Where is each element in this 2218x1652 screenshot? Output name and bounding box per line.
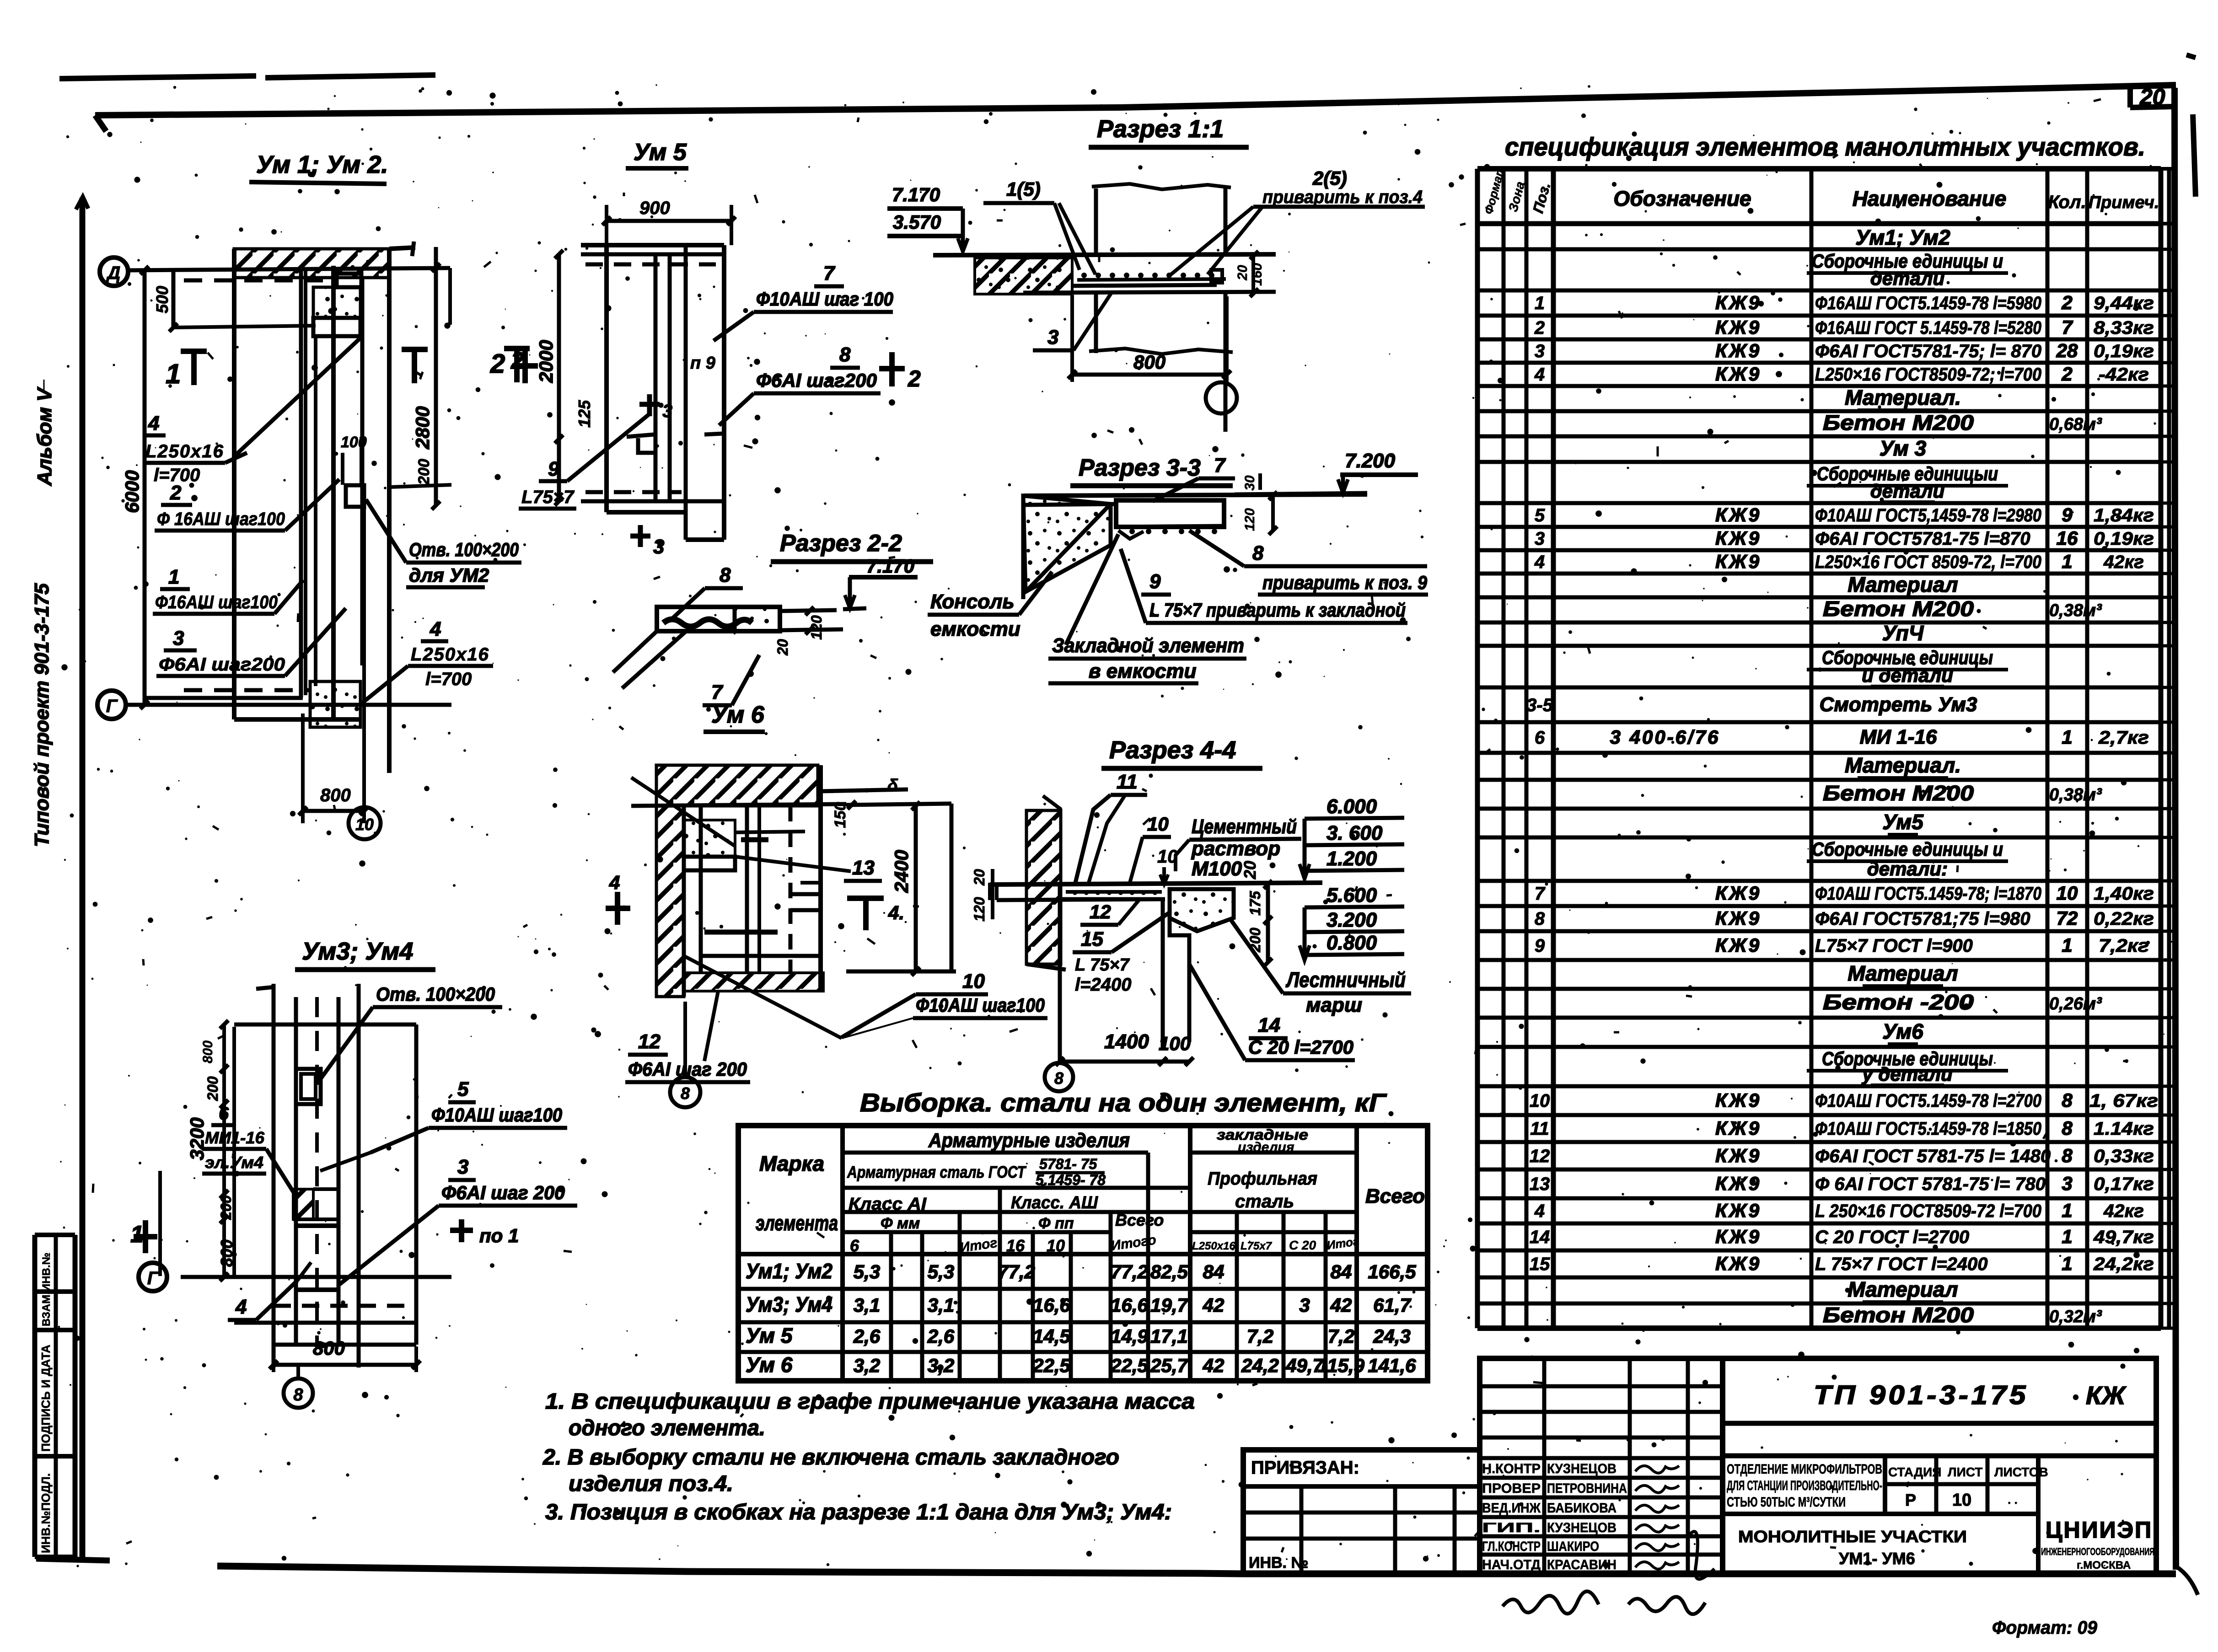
svg-text:7: 7	[2062, 316, 2073, 338]
svg-text:4: 4	[609, 872, 620, 893]
svg-text:77,2: 77,2	[1111, 1261, 1148, 1282]
svg-text:42кг: 42кг	[2103, 552, 2144, 572]
svg-text:ДЛЯ СТАНЦИИ ПРОИЗВОДИТЕЛЬНО-: ДЛЯ СТАНЦИИ ПРОИЗВОДИТЕЛЬНО-	[1727, 1478, 1882, 1493]
svg-text:3. 600: 3. 600	[1327, 822, 1383, 844]
svg-text:Ф16АШ шаг100: Ф16АШ шаг100	[155, 592, 278, 612]
svg-text:КЖ9: КЖ9	[1715, 907, 1761, 929]
svg-text:15: 15	[1081, 928, 1103, 950]
svg-text:4: 4	[1534, 1201, 1545, 1221]
svg-text:Наименование: Наименование	[1853, 187, 2007, 210]
svg-text:16: 16	[1006, 1236, 1025, 1255]
svg-text:7: 7	[1535, 884, 1546, 904]
svg-text:Цементный: Цементный	[1192, 815, 1297, 838]
svg-text:L 75×7 приварить к закладной: L 75×7 приварить к закладной	[1149, 599, 1406, 621]
svg-text:7,2кг: 7,2кг	[2099, 936, 2149, 956]
svg-text:Ф6АI ГОСТ5781;75 l=980: Ф6АI ГОСТ5781;75 l=980	[1815, 909, 2030, 929]
svg-text:Разрез 4-4: Разрез 4-4	[1109, 736, 1236, 764]
svg-text:марш: марш	[1306, 994, 1362, 1016]
svg-text:Ум1; Ум2: Ум1; Ум2	[746, 1259, 832, 1283]
svg-text:7.200: 7.200	[1345, 450, 1396, 472]
svg-text:120: 120	[1242, 508, 1257, 531]
svg-text:0.800: 0.800	[1327, 932, 1377, 954]
svg-text:Ф мм: Ф мм	[881, 1215, 920, 1232]
svg-text:КЖ9: КЖ9	[1715, 882, 1761, 904]
svg-text:Ум 5: Ум 5	[634, 139, 687, 166]
svg-text:Г: Г	[106, 696, 118, 716]
svg-text:1: 1	[2062, 726, 2072, 748]
svg-text:8: 8	[681, 1084, 690, 1103]
svg-text:6: 6	[1535, 728, 1545, 748]
svg-text:Всего: Всего	[1365, 1185, 1425, 1207]
svg-text:Ф10АШ ГОСТ5.1459-78; l=1870: Ф10АШ ГОСТ5.1459-78; l=1870	[1815, 884, 2041, 904]
svg-text:14: 14	[1530, 1227, 1550, 1247]
svg-text:спецификация элементов манолит: спецификация элементов манолитных участк…	[1505, 132, 2145, 161]
svg-text:КЖ9: КЖ9	[1715, 316, 1761, 338]
svg-text:Н.КОНТР: Н.КОНТР	[1482, 1461, 1541, 1476]
svg-text:КЖ9: КЖ9	[1715, 527, 1761, 549]
svg-text:42: 42	[1330, 1294, 1352, 1316]
svg-text:КЖ9: КЖ9	[1715, 340, 1761, 361]
svg-text:КЖ9: КЖ9	[1715, 1145, 1761, 1166]
svg-text:Отв. 100×200: Отв. 100×200	[409, 539, 519, 560]
svg-text:42: 42	[1203, 1355, 1224, 1376]
svg-text:Ф10АШ шаг100: Ф10АШ шаг100	[916, 994, 1045, 1016]
svg-text:7.170: 7.170	[892, 184, 940, 205]
svg-text:Р: Р	[1905, 1491, 1916, 1509]
svg-text:Типовой проект 901-3-175: Типовой проект 901-3-175	[31, 583, 53, 847]
svg-text:Ф16АШ ГОСТ5.1459-78 l=5980: Ф16АШ ГОСТ5.1459-78 l=5980	[1815, 293, 2041, 313]
svg-text:3: 3	[1535, 341, 1545, 361]
svg-text:МИ 1-16: МИ 1-16	[1860, 726, 1937, 748]
svg-text:0,38м³: 0,38м³	[2049, 601, 2102, 620]
svg-text:L 75×7: L 75×7	[1075, 955, 1130, 975]
svg-text:емкости: емкости	[930, 618, 1020, 640]
svg-text:1,84кг: 1,84кг	[2094, 505, 2154, 526]
svg-text:КЖ9: КЖ9	[1715, 1253, 1761, 1274]
svg-text:14,9: 14,9	[1111, 1325, 1148, 1347]
svg-text:11: 11	[1117, 771, 1138, 793]
svg-text:НАЧ.ОТД: НАЧ.ОТД	[1482, 1557, 1541, 1572]
svg-text:Ф16АШ ГОСТ 5.1459-78 l=5280: Ф16АШ ГОСТ 5.1459-78 l=5280	[1815, 318, 2041, 338]
svg-text:30: 30	[1242, 475, 1257, 491]
svg-text:приварить к поз. 9: приварить к поз. 9	[1262, 572, 1428, 593]
svg-text:4.: 4.	[888, 902, 904, 923]
svg-text:ЛИСТОВ: ЛИСТОВ	[1994, 1465, 2048, 1479]
svg-text:2,6: 2,6	[927, 1325, 955, 1347]
svg-text:в емкости: в емкости	[1089, 660, 1197, 682]
svg-text:141,6: 141,6	[1368, 1355, 1416, 1376]
svg-text:8: 8	[2062, 1089, 2073, 1111]
svg-text:Ф10АШ ГОСТ5.1459-78 l=2700: Ф10АШ ГОСТ5.1459-78 l=2700	[1815, 1091, 2041, 1111]
svg-text:одного элемента.: одного элемента.	[569, 1416, 765, 1440]
svg-text:3200: 3200	[186, 1117, 208, 1160]
svg-text:ПОДПИСЬ И ДАТА: ПОДПИСЬ И ДАТА	[39, 1345, 53, 1452]
svg-text:Обозначение: Обозначение	[1613, 187, 1751, 210]
svg-text:Ум6: Ум6	[1882, 1019, 1923, 1043]
svg-text:2: 2	[908, 366, 921, 392]
svg-text:0,17кг: 0,17кг	[2094, 1174, 2154, 1194]
svg-text:12: 12	[638, 1030, 661, 1053]
svg-text:2: 2	[510, 348, 524, 374]
svg-text:Бетон -200: Бетон -200	[1823, 990, 1974, 1014]
svg-text:42: 42	[1203, 1294, 1224, 1316]
svg-text:6.000: 6.000	[1327, 795, 1377, 818]
svg-text:ВЗАМ.ИНВ.№: ВЗАМ.ИНВ.№	[40, 1253, 53, 1326]
svg-text:С 20 ГОСТ l=2700: С 20 ГОСТ l=2700	[1815, 1227, 1969, 1247]
svg-text:1: 1	[166, 359, 181, 389]
svg-text:6: 6	[850, 1236, 859, 1255]
svg-text:ИНЖЕНЕРНОГООБОРУДОВАНИЯ: ИНЖЕНЕРНОГООБОРУДОВАНИЯ	[2041, 1546, 2154, 1557]
svg-text:1: 1	[168, 566, 179, 588]
svg-text:БАБИКОВА: БАБИКОВА	[1547, 1501, 1617, 1516]
svg-text:ЦНИИЭП: ЦНИИЭП	[2046, 1517, 2153, 1543]
svg-text:7: 7	[823, 262, 836, 284]
svg-text:0,33кг: 0,33кг	[2094, 1146, 2154, 1166]
svg-text:4: 4	[1534, 365, 1545, 385]
svg-text:УМ1- УМ6: УМ1- УМ6	[1839, 1549, 1915, 1568]
svg-text:Ф пп: Ф пп	[1038, 1215, 1074, 1232]
svg-text:Бетон М200: Бетон М200	[1823, 597, 1974, 621]
svg-text:Ум3; Ум4: Ум3; Ум4	[302, 938, 413, 965]
svg-text:3: 3	[1299, 1294, 1310, 1316]
svg-text:61,7: 61,7	[1373, 1294, 1411, 1316]
svg-text:Кол.: Кол.	[2048, 192, 2086, 212]
svg-text:120: 120	[971, 897, 988, 922]
svg-text:4: 4	[235, 1296, 247, 1318]
svg-text:Ф6АI шаг200: Ф6АI шаг200	[756, 370, 877, 391]
svg-text:9: 9	[548, 458, 559, 480]
svg-text:ПРОВЕР: ПРОВЕР	[1482, 1481, 1541, 1496]
svg-text:3: 3	[653, 536, 664, 558]
svg-text:7,2: 7,2	[1247, 1325, 1273, 1347]
svg-text:9: 9	[2062, 504, 2073, 526]
svg-text:5,3: 5,3	[928, 1261, 954, 1282]
svg-text:3: 3	[457, 1156, 468, 1178]
svg-text:Ум 6: Ум 6	[711, 702, 765, 728]
svg-text:3. Позиция в скобках на разрез: 3. Позиция в скобках на разрезе 1:1 дана…	[545, 1500, 1172, 1524]
svg-text:10: 10	[1530, 1091, 1550, 1111]
svg-text:16,6: 16,6	[1111, 1294, 1148, 1316]
svg-text:3: 3	[662, 401, 672, 421]
svg-text:22,5: 22,5	[1032, 1355, 1070, 1376]
svg-text:5781- 75: 5781- 75	[1039, 1156, 1098, 1172]
svg-text:ОТДЕЛЕНИЕ МИКРОФИЛЬТРОВ: ОТДЕЛЕНИЕ МИКРОФИЛЬТРОВ	[1727, 1462, 1882, 1477]
svg-text:. .: . .	[2008, 1493, 2018, 1507]
svg-text:Формат: 09: Формат: 09	[1992, 1618, 2098, 1638]
svg-text:800: 800	[320, 785, 351, 805]
svg-text:КЖ9: КЖ9	[1715, 1226, 1761, 1247]
svg-text:3-5: 3-5	[1526, 695, 1553, 715]
svg-text:9,44кг: 9,44кг	[2094, 293, 2154, 313]
svg-text:166,5: 166,5	[1368, 1261, 1416, 1282]
svg-text:КЖ9: КЖ9	[1715, 292, 1761, 313]
svg-text:200: 200	[204, 1076, 221, 1101]
svg-text:Альбом V: Альбом V	[33, 386, 56, 486]
svg-text:2400: 2400	[891, 850, 912, 893]
svg-text:Разрез 3-3: Разрез 3-3	[1079, 455, 1201, 481]
svg-text:Класс АI: Класс АI	[849, 1195, 927, 1214]
svg-text:4: 4	[1534, 552, 1545, 572]
svg-text:0,22кг: 0,22кг	[2094, 909, 2154, 929]
svg-text:Материал: Материал	[1847, 961, 1958, 985]
svg-text:Лестничный: Лестничный	[1285, 968, 1406, 992]
svg-text:1: 1	[2062, 1200, 2072, 1221]
svg-text:Марка: Марка	[759, 1152, 824, 1175]
svg-text:20: 20	[774, 639, 791, 656]
svg-text:Ум 3: Ум 3	[1880, 436, 1927, 460]
svg-text:6000: 6000	[121, 470, 143, 513]
svg-text:КЖ9: КЖ9	[1715, 1200, 1761, 1221]
svg-text:1: 1	[2062, 1226, 2072, 1247]
svg-text:Арматурная сталь ГОСТ: Арматурная сталь ГОСТ	[847, 1163, 1026, 1181]
svg-text:115,9: 115,9	[1318, 1355, 1365, 1376]
svg-text:l=700: l=700	[425, 669, 472, 689]
svg-text:Ф10АШ шаг100: Ф10АШ шаг100	[431, 1104, 562, 1126]
svg-text:Материал.: Материал.	[1845, 386, 1961, 409]
svg-text:14,5: 14,5	[1033, 1325, 1070, 1347]
svg-text:детали: детали	[1870, 268, 1944, 289]
svg-text:3: 3	[173, 627, 184, 649]
svg-text:19,7: 19,7	[1150, 1294, 1188, 1316]
svg-text:ИНВ.№ПОДЛ.: ИНВ.№ПОДЛ.	[39, 1473, 53, 1553]
svg-text:раствор: раствор	[1191, 837, 1280, 860]
svg-text:10: 10	[355, 815, 374, 834]
svg-text:0,19кг: 0,19кг	[2094, 341, 2154, 361]
svg-text:7,2: 7,2	[1328, 1325, 1354, 1347]
svg-text:КЖ9: КЖ9	[1715, 363, 1761, 385]
svg-text:200: 200	[218, 1195, 234, 1220]
svg-text:16: 16	[2057, 527, 2078, 549]
svg-text:1. В спецификации в графе прим: 1. В спецификации в графе примечание ука…	[545, 1389, 1195, 1414]
svg-text:L75×7: L75×7	[521, 487, 575, 507]
svg-text:42кг: 42кг	[2103, 1201, 2144, 1221]
svg-text:4: 4	[148, 412, 159, 434]
svg-text:49,7кг: 49,7кг	[2093, 1227, 2154, 1247]
svg-text:КЖ9: КЖ9	[1715, 1089, 1761, 1111]
svg-text:16,6: 16,6	[1033, 1294, 1070, 1316]
svg-text:L250×16 ГОСТ8509-72; l=700: L250×16 ГОСТ8509-72; l=700	[1815, 365, 2041, 385]
svg-text:3,2: 3,2	[854, 1355, 880, 1376]
svg-text:Ф6АI ГОСТ5781-75; l= 870: Ф6АI ГОСТ5781-75; l= 870	[1815, 341, 2041, 361]
svg-text:L250x16: L250x16	[1192, 1240, 1235, 1252]
svg-text:Ум1; Ум2: Ум1; Ум2	[1855, 225, 1950, 249]
svg-text:0,32м³: 0,32м³	[2049, 1307, 2102, 1326]
svg-text:3: 3	[1047, 326, 1058, 349]
svg-text:3,1: 3,1	[854, 1294, 880, 1316]
svg-text:800: 800	[200, 1041, 215, 1063]
svg-text:20: 20	[1241, 861, 1259, 880]
svg-text:Разрез 1:1: Разрез 1:1	[1097, 115, 1224, 143]
svg-text:Ф10АШ ГОСТ5.1459-78 l=1850: Ф10АШ ГОСТ5.1459-78 l=1850	[1815, 1119, 2041, 1139]
svg-text:1: 1	[2062, 934, 2072, 956]
svg-text:и детали: и детали	[1862, 665, 1953, 686]
svg-text:изделия: изделия	[1238, 1140, 1294, 1155]
svg-text:Ф 6АI ГОСТ 5781-75 l= 780: Ф 6АI ГОСТ 5781-75 l= 780	[1815, 1174, 2046, 1194]
svg-text:детали:: детали:	[1867, 858, 1948, 880]
svg-text:ТП 901-3-175: ТП 901-3-175	[1814, 1380, 2029, 1410]
svg-text:ИНВ. №: ИНВ. №	[1249, 1554, 1308, 1572]
svg-text:Сборочные единицы и: Сборочные единицы и	[1812, 838, 2003, 860]
svg-text:14: 14	[1258, 1014, 1280, 1036]
svg-text:ГИП.: ГИП.	[1482, 1520, 1541, 1535]
svg-text:5: 5	[1535, 505, 1545, 526]
svg-text:7: 7	[711, 681, 724, 703]
svg-text:Отв. 100×200: Отв. 100×200	[376, 983, 495, 1005]
svg-text:0,38м³: 0,38м³	[2049, 785, 2102, 805]
svg-text:СТЬЮ 50ТЫС М³/СУТКИ: СТЬЮ 50ТЫС М³/СУТКИ	[1727, 1495, 1846, 1510]
svg-text:КЖ9: КЖ9	[1715, 504, 1761, 526]
svg-text:УпЧ: УпЧ	[1882, 621, 1924, 645]
svg-text:200: 200	[415, 459, 433, 485]
svg-text:24,3: 24,3	[1373, 1325, 1411, 1347]
svg-text:5.600: 5.600	[1327, 884, 1377, 906]
svg-text:15: 15	[1530, 1254, 1550, 1274]
svg-text:8: 8	[1054, 1069, 1063, 1088]
svg-text:2(5): 2(5)	[1312, 167, 1347, 189]
svg-text:δ: δ	[887, 776, 898, 795]
svg-text:КЖ: КЖ	[2086, 1381, 2127, 1410]
svg-text:8: 8	[2062, 1145, 2073, 1166]
svg-text:ПЕТРОВНИНА: ПЕТРОВНИНА	[1547, 1481, 1627, 1496]
svg-text:СТАДИЯ: СТАДИЯ	[1888, 1465, 1941, 1479]
svg-text:L75×7 ГОСТ l=900: L75×7 ГОСТ l=900	[1815, 936, 1973, 956]
svg-text:2800: 2800	[412, 406, 433, 449]
svg-text:10: 10	[962, 970, 985, 992]
svg-text:13: 13	[1530, 1174, 1550, 1194]
svg-text:Бетон М200: Бетон М200	[1823, 1303, 1974, 1327]
svg-text:г.МОСКВА: г.МОСКВА	[2077, 1559, 2131, 1572]
svg-text:2: 2	[2061, 292, 2072, 313]
svg-text:9: 9	[1535, 936, 1545, 956]
svg-text:Примеч.: Примеч.	[2089, 193, 2159, 212]
svg-text:1400: 1400	[1104, 1030, 1149, 1053]
svg-text:L 250×16 ГОСТ8509-72 l=700: L 250×16 ГОСТ8509-72 l=700	[1815, 1201, 2041, 1221]
svg-text:Ф6АI шаг200: Ф6АI шаг200	[159, 654, 285, 675]
svg-text:7: 7	[1214, 454, 1226, 477]
svg-text:5: 5	[457, 1078, 469, 1100]
svg-text:Бетон М200: Бетон М200	[1823, 411, 1974, 434]
svg-text:8: 8	[2062, 1117, 2073, 1139]
svg-text:72: 72	[2057, 907, 2078, 929]
svg-text:84: 84	[1203, 1261, 1224, 1282]
svg-text:у детали: у детали	[1861, 1063, 1952, 1085]
svg-text:17,1: 17,1	[1150, 1325, 1188, 1347]
svg-text:ВЕД.ИНЖ: ВЕД.ИНЖ	[1482, 1501, 1541, 1516]
svg-text:2: 2	[1534, 318, 1545, 338]
svg-text:Ф6АI ГОСТ5781-75 l=870: Ф6АI ГОСТ5781-75 l=870	[1815, 529, 2030, 549]
svg-text:10: 10	[1147, 813, 1169, 835]
svg-text:3,1: 3,1	[928, 1294, 954, 1316]
svg-text:ЛИСТ: ЛИСТ	[1948, 1465, 1982, 1479]
svg-text:Смотреть Ум3: Смотреть Ум3	[1820, 693, 1977, 716]
svg-text:элемента: элемента	[756, 1211, 838, 1235]
svg-text:10: 10	[2057, 882, 2078, 904]
svg-text:100: 100	[1159, 1033, 1191, 1054]
svg-text:12: 12	[1530, 1146, 1550, 1166]
svg-text:24,2: 24,2	[1241, 1355, 1279, 1376]
svg-text:2: 2	[2061, 363, 2072, 385]
svg-text:8: 8	[1252, 542, 1264, 564]
svg-text:КУЗНЕЦОВ: КУЗНЕЦОВ	[1547, 1461, 1617, 1476]
svg-text:Г: Г	[147, 1268, 160, 1288]
svg-text:2,7кг: 2,7кг	[2098, 728, 2149, 748]
svg-text:Консоль: Консоль	[930, 590, 1015, 613]
svg-text:84: 84	[1331, 1261, 1352, 1282]
svg-text:150: 150	[832, 802, 849, 828]
svg-text:Ум 5: Ум 5	[746, 1324, 793, 1347]
svg-text:КЖ9: КЖ9	[1715, 551, 1761, 572]
svg-text:6: 6	[219, 1104, 229, 1124]
svg-text:Материал: Материал	[1847, 573, 1958, 596]
svg-text:L250x16: L250x16	[145, 441, 224, 461]
svg-text:500: 500	[153, 286, 172, 313]
svg-text:Ф 16АШ шаг100: Ф 16АШ шаг100	[157, 509, 285, 529]
svg-text:8: 8	[839, 343, 851, 366]
svg-text:2: 2	[490, 349, 505, 379]
svg-text:77,2: 77,2	[998, 1261, 1035, 1282]
svg-text:М100: М100	[1192, 858, 1242, 880]
svg-text:24,2кг: 24,2кг	[2093, 1254, 2154, 1274]
svg-text:2000: 2000	[535, 340, 557, 383]
svg-text:l=2400: l=2400	[1075, 975, 1131, 995]
svg-text:ПРИВЯЗАН:: ПРИВЯЗАН:	[1251, 1458, 1359, 1478]
svg-text:3 400-6/76: 3 400-6/76	[1610, 726, 1720, 748]
svg-text:Ф6АI шаг 200: Ф6АI шаг 200	[441, 1182, 565, 1203]
svg-text:8: 8	[293, 1385, 303, 1405]
svg-text:Выборка. стали на один элемент: Выборка. стали на один элемент, кГ	[860, 1088, 1387, 1117]
svg-text:10: 10	[1952, 1491, 1971, 1510]
svg-text:Ум 1; Ум 2.: Ум 1; Ум 2.	[256, 151, 388, 178]
svg-text:Бетон М200: Бетон М200	[1823, 781, 1974, 805]
svg-text:1(5): 1(5)	[1006, 178, 1041, 200]
svg-text:82,5: 82,5	[1150, 1261, 1188, 1282]
svg-text:КУЗНЕЦОВ: КУЗНЕЦОВ	[1547, 1520, 1617, 1535]
svg-text:-42кг: -42кг	[2099, 365, 2149, 385]
svg-text:1: 1	[1535, 293, 1545, 313]
svg-text:28: 28	[2056, 340, 2078, 361]
svg-text:8: 8	[720, 564, 731, 586]
svg-text:2,6: 2,6	[853, 1325, 881, 1347]
svg-text:Класс. АШ: Класс. АШ	[1011, 1193, 1098, 1212]
svg-text:3.570: 3.570	[893, 211, 941, 233]
svg-text:10: 10	[1047, 1236, 1065, 1255]
svg-text:3: 3	[2062, 1173, 2072, 1194]
svg-text:3: 3	[1535, 529, 1545, 549]
svg-text:0,68м³: 0,68м³	[2049, 415, 2102, 434]
svg-text:800: 800	[313, 1337, 345, 1359]
svg-text:L250×16 ГОСТ 8509-72, l=700: L250×16 ГОСТ 8509-72, l=700	[1815, 552, 2041, 572]
svg-text:Разрез 2-2: Разрез 2-2	[780, 530, 902, 557]
svg-text:Материал.: Материал.	[1845, 753, 1961, 777]
svg-text:20: 20	[1235, 265, 1250, 281]
svg-text:9: 9	[1149, 570, 1161, 593]
svg-text:8,33кг: 8,33кг	[2094, 318, 2154, 338]
svg-text:900: 900	[639, 198, 670, 218]
svg-text:20: 20	[971, 869, 988, 886]
svg-text:2. В выборку стали не включена: 2. В выборку стали не включена сталь зак…	[542, 1445, 1119, 1470]
svg-text:С 20: С 20	[1289, 1238, 1316, 1252]
svg-text:Д: Д	[106, 263, 121, 283]
svg-text:12: 12	[1090, 901, 1111, 923]
svg-text:Ум 6: Ум 6	[746, 1353, 793, 1377]
svg-text:4: 4	[430, 618, 441, 640]
svg-text:160: 160	[1250, 263, 1265, 286]
svg-text:1: 1	[2062, 551, 2072, 572]
svg-text:L 75×7 ГОСТ l=2400: L 75×7 ГОСТ l=2400	[1815, 1254, 1988, 1274]
svg-text:для УМ2: для УМ2	[409, 564, 489, 586]
svg-text:3.200: 3.200	[1327, 909, 1377, 931]
svg-text:13: 13	[852, 857, 875, 879]
